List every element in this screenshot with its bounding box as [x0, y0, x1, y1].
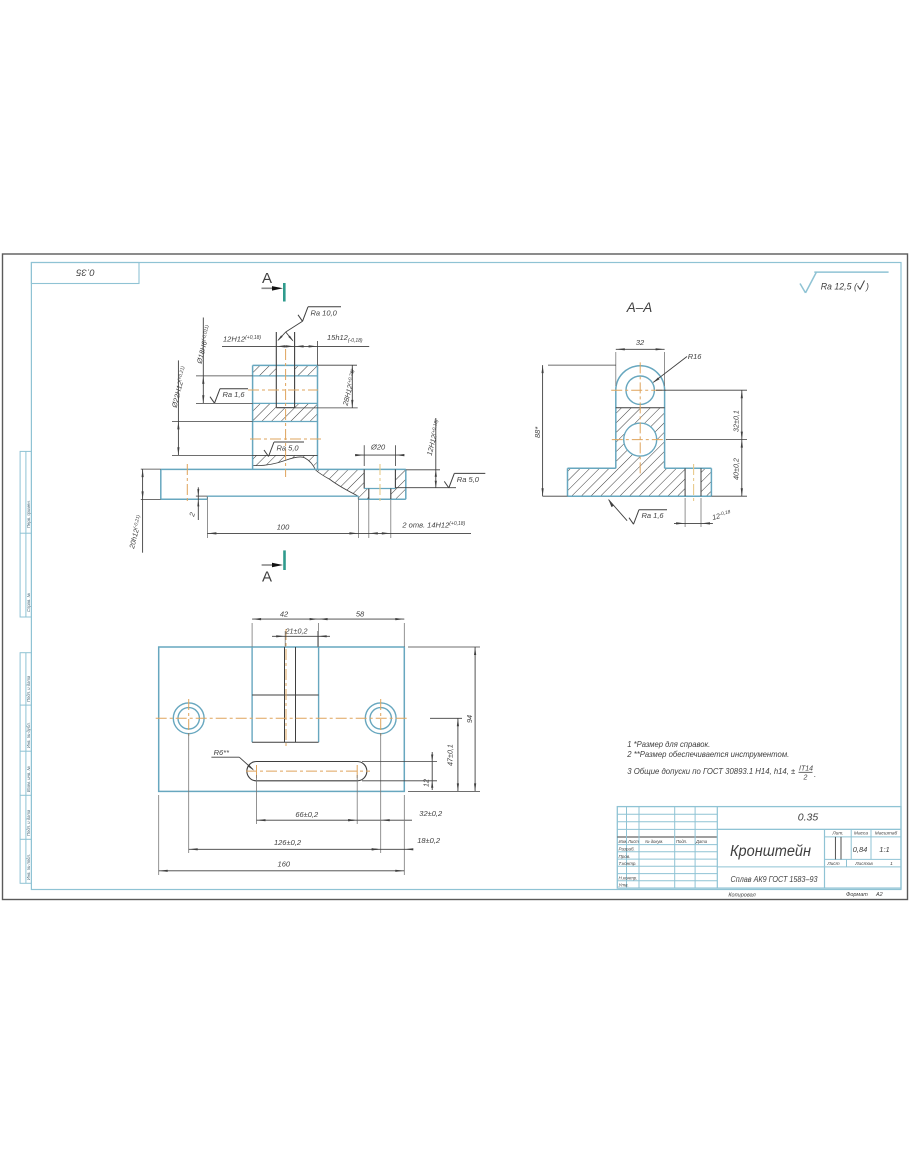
plan slot right wall [295, 647, 297, 742]
svg-text:32±0,2: 32±0,2 [419, 809, 443, 818]
front counterbore right wall [394, 469, 396, 488]
svg-text:126±0,2: 126±0,2 [274, 838, 302, 847]
plan obround centerline [246, 770, 370, 772]
svg-text:Кронштейн: Кронштейн [730, 843, 811, 860]
dim 12 slot width plan [362, 761, 437, 763]
front counterbore bottom [364, 488, 395, 490]
front hole 14 right wall [390, 489, 392, 500]
A-A column right edge [664, 390, 666, 468]
front column top edge [253, 364, 318, 366]
svg-text:А2: А2 [875, 892, 883, 898]
plan slot obround [247, 762, 367, 781]
svg-text:№ докум.: № докум. [645, 839, 663, 844]
section arrow top [262, 287, 277, 289]
svg-text:Инв. № подл.: Инв. № подл. [26, 854, 31, 880]
svg-text:Лист: Лист [826, 861, 839, 867]
title block header row line [617, 844, 717, 846]
dim 32+-0.1 right [656, 389, 747, 391]
A-A column left edge [615, 390, 617, 468]
svg-text:0,84: 0,84 [853, 845, 868, 854]
hatch front column bottom band with wavy boundary [253, 455, 318, 470]
svg-text:2 **Размер обеспечивается инс: 2 **Размер обеспечивается инструментом. [626, 750, 789, 759]
front plate bottom right foot [358, 498, 405, 500]
plan horizontal centerline [156, 717, 409, 719]
svg-text:Ra 1,6: Ra 1,6 [223, 390, 246, 399]
dim 28H12 vertical line right [351, 365, 353, 408]
front hole 14 left wall [368, 489, 370, 500]
svg-text:Изм.: Изм. [619, 839, 628, 844]
svg-text:IT14: IT14 [799, 766, 813, 773]
svg-text:Утв.: Утв. [619, 883, 629, 888]
svg-text:): ) [865, 282, 869, 292]
title block sep under kronshtein [717, 866, 824, 868]
A-A rounded top R16 [616, 366, 665, 390]
svg-text:Формат: Формат [846, 892, 868, 898]
dim 21+-0.2 [284, 631, 286, 647]
svg-text:A: A [262, 270, 272, 287]
hatch A-A base left [568, 468, 686, 496]
svg-text:Инв. № дубл.: Инв. № дубл. [26, 722, 31, 748]
A-A base bottom [568, 495, 712, 497]
dim 42 and 58 top of plan [251, 623, 253, 647]
A-A base right edge [710, 468, 712, 496]
svg-text:Подп. и дата: Подп. и дата [26, 809, 31, 836]
svg-text:12: 12 [422, 779, 431, 787]
plan obround left arc tick [256, 765, 258, 778]
plan column vertical centerline [285, 629, 287, 749]
front horizontal centerline bore 18 [248, 389, 318, 391]
dim 2 recess depth [196, 495, 208, 497]
ext line 22 bore top left [172, 421, 253, 423]
svg-text:Взам. инв. №: Взам. инв. № [26, 766, 31, 792]
front plate recess step left [206, 496, 208, 499]
plan column inner line [252, 694, 319, 696]
svg-text:0.35: 0.35 [798, 812, 819, 824]
plan right hole outer circle [365, 703, 396, 734]
svg-text:Лит.: Лит. [831, 831, 843, 837]
front plate recess step right [357, 496, 359, 499]
svg-text:R6**: R6** [214, 748, 231, 757]
svg-text:Сплав АК9 ГОСТ 1583–93: Сплав АК9 ГОСТ 1583–93 [731, 874, 818, 884]
dim 12H12 counterbore depth right [406, 469, 440, 471]
svg-text:0.35: 0.35 [76, 267, 95, 278]
ext line bore top left [196, 375, 253, 377]
general surface roughness symbol top right [800, 284, 806, 293]
title block lit col [850, 829, 852, 859]
svg-text:100: 100 [277, 523, 290, 532]
title block vertical lines left part [626, 807, 628, 889]
front column left edge [252, 365, 254, 469]
svg-text:Ra 5,0: Ra 5,0 [277, 444, 300, 453]
plan plate rectangle [159, 647, 405, 791]
svg-text:R16: R16 [688, 352, 703, 361]
hatch front column top band right [295, 365, 318, 376]
svg-text:Масштаб: Масштаб [875, 831, 898, 837]
svg-text:Лист: Лист [627, 839, 639, 844]
ext line bore mid left [196, 402, 253, 404]
plan left hole vertical centerline [188, 699, 190, 737]
dim 47+-0.1 [430, 717, 462, 719]
hatch front column middle band [253, 403, 318, 421]
svg-text:Ø20: Ø20 [370, 443, 386, 452]
front column right edge [317, 365, 319, 469]
dim 32+-0.2 plan [357, 819, 381, 821]
title block lit massa masshtab header line [825, 836, 902, 838]
front plate recess bottom [207, 495, 358, 497]
left margin stamp column group 1 [20, 451, 31, 617]
ext line column base left [172, 454, 253, 456]
dim 20h12 left end [141, 468, 161, 470]
hatch A-A column [616, 408, 665, 469]
dim 32 A-A top [615, 352, 617, 386]
svg-text:Т.контр.: Т.контр. [619, 861, 637, 866]
dim d20 counterbore [363, 445, 365, 466]
front wavy break line on column [253, 457, 359, 496]
svg-text:1 *Размер для справок.: 1 *Размер для справок. [627, 740, 710, 749]
A-A hole left wall [684, 468, 686, 496]
roughness Ra 5.0 right [395, 487, 456, 489]
svg-text:Пров.: Пров. [619, 854, 631, 859]
A-A bore circle 18 [626, 376, 654, 404]
svg-text:94: 94 [465, 715, 474, 723]
svg-text:58: 58 [356, 610, 365, 619]
svg-text:.: . [814, 770, 816, 779]
plan right hole vertical centerline [380, 699, 382, 737]
svg-text:Ra 1,6: Ra 1,6 [642, 511, 665, 520]
plan right hole inner circle [370, 708, 391, 729]
hatch plate right of counterbore [391, 470, 406, 499]
roughness Ra 1.6 A-A bottom with leader [609, 500, 614, 508]
svg-text:A: A [262, 569, 272, 586]
hatch front column top band left [253, 365, 277, 376]
A-A centerline bore 22 [612, 439, 667, 441]
front slot bottom [276, 407, 294, 409]
front plate left edge [160, 469, 162, 499]
front slot right wall [294, 332, 296, 408]
title block outline [617, 807, 901, 889]
A-A hole right wall [700, 468, 702, 496]
plan column right edge [318, 647, 320, 742]
front plate bottom left foot [161, 498, 208, 500]
title block designation cell line [717, 828, 901, 830]
A-A vertical centerline [639, 362, 641, 474]
A-A base left edge [567, 468, 569, 496]
svg-text:Листов: Листов [854, 861, 873, 867]
extension line column right top [317, 341, 319, 365]
title block massa col [870, 829, 872, 859]
roughness Ra 5.0 on column [264, 450, 269, 457]
plan left hole outer circle [173, 703, 204, 734]
dim 18+-0.2 plan [403, 795, 405, 875]
title block lit subcells [834, 837, 836, 860]
front plate top edge [161, 468, 406, 470]
svg-text:Перв. примен.: Перв. примен. [26, 500, 31, 528]
svg-text:1: 1 [890, 861, 893, 867]
svg-text:21±0,2: 21±0,2 [285, 627, 308, 636]
left margin stamp column group 2 [20, 653, 31, 884]
svg-text:42: 42 [280, 610, 289, 619]
svg-text:40±0,2: 40±0,2 [732, 458, 741, 480]
svg-text:2: 2 [803, 775, 808, 782]
section tick bottom [283, 550, 286, 570]
svg-text:Дата: Дата [695, 839, 708, 844]
svg-text:1:1: 1:1 [879, 845, 889, 854]
dim 40+-0.2 right [711, 495, 747, 497]
svg-text:32: 32 [636, 338, 645, 347]
title block right section vertical [824, 829, 826, 888]
hatch plate breakout around right hole [316, 470, 369, 499]
plan column left edge [251, 647, 253, 742]
title block upper revision rows [617, 813, 717, 815]
title block main vertical separator [716, 807, 718, 889]
plan left hole inner circle [178, 708, 199, 729]
svg-text:Справ. №: Справ. № [26, 593, 31, 612]
title block list listov row [825, 858, 902, 860]
ext line slot bottom right [295, 407, 358, 409]
top-left document number box [31, 263, 139, 284]
dim 18H6 vertical line left [202, 318, 204, 404]
svg-text:Масса: Масса [854, 831, 869, 837]
A-A base top left [568, 467, 616, 469]
dim 94 right of plan [408, 646, 480, 648]
title block left rows [617, 851, 717, 853]
section tick top [283, 283, 286, 302]
front bore line 28H12 level [253, 402, 318, 404]
front vertical centerline of column [285, 349, 287, 477]
dim line 12H12 and 15h12 top [222, 345, 369, 347]
svg-text:32±0,1: 32±0,1 [732, 410, 741, 432]
svg-text:Ra 5,0: Ra 5,0 [457, 475, 480, 484]
plan obround right arc tick [356, 765, 358, 778]
A-A bore circle 22 [624, 423, 657, 456]
A-A centerline bore 18 [611, 389, 666, 391]
section arrow bottom [262, 564, 276, 566]
svg-text:Подп. и дата: Подп. и дата [26, 675, 31, 702]
dim 160 [158, 795, 160, 875]
plan slot left wall [284, 647, 286, 742]
A-A base hole centerline [693, 464, 695, 504]
svg-text:Ra 10,0: Ra 10,0 [311, 308, 338, 317]
front counterbore left wall [363, 469, 365, 488]
front bore line 18H6 bottom [253, 375, 318, 377]
svg-text:Разраб.: Разраб. [619, 847, 635, 852]
sheet outer border [3, 254, 908, 900]
svg-text:Ra 12,5 (: Ra 12,5 ( [821, 282, 858, 292]
front left hole centerline [186, 464, 188, 504]
dim 12-0.18 A-A base hole [684, 498, 686, 527]
ext line column top right [318, 364, 358, 366]
dim 2 holes 14H12 [368, 500, 370, 538]
dim 126+-0.2 [188, 733, 190, 853]
front plate right edge [405, 469, 407, 499]
svg-text:47±0,1: 47±0,1 [446, 744, 455, 766]
leader R16 [653, 357, 687, 383]
svg-text:66±0,2: 66±0,2 [295, 810, 319, 819]
svg-text:18±0,2: 18±0,2 [417, 836, 441, 845]
svg-text:3 Общие допуски по ГОСТ 30893: 3 Общие допуски по ГОСТ 30893.1 H14, h14… [627, 767, 795, 776]
front right hole centerline [379, 464, 381, 504]
A-A base top right [665, 467, 712, 469]
dim 100 bottom [206, 497, 208, 538]
svg-text:Копировал: Копировал [728, 893, 755, 899]
roughness Ra 10.0 with leader [278, 332, 286, 340]
hatch A-A base right [701, 468, 711, 496]
svg-text:160: 160 [278, 860, 291, 869]
svg-text:88*: 88* [533, 426, 542, 438]
svg-text:Подп.: Подп. [676, 839, 687, 844]
svg-text:A–A: A–A [626, 300, 653, 315]
front slot left wall [275, 332, 277, 408]
svg-text:Н.контр.: Н.контр. [619, 876, 638, 881]
A-A hatch boundary line slot bottom [616, 407, 665, 409]
front bore line 22H12 top [253, 421, 318, 423]
front hatch top line at column base [253, 454, 318, 456]
inner drawing frame [31, 263, 901, 890]
dim 22H12 vertical line left [177, 360, 179, 455]
dim 88 left [548, 364, 616, 366]
roughness Ra 1.6 left [210, 397, 215, 404]
plan column bottom edge [252, 741, 319, 743]
dim 66+-0.2 [256, 775, 258, 824]
front horizontal centerline bore 22 [250, 438, 322, 440]
